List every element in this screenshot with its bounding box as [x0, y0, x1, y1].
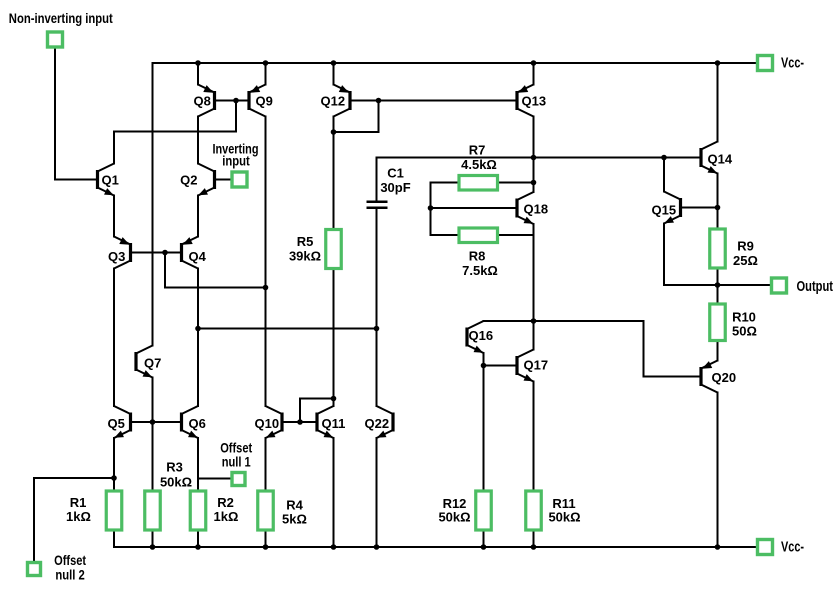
terminal inverting input — [232, 172, 247, 187]
transistor Q13 — [517, 85, 534, 117]
terminal offset null 2 — [28, 563, 41, 576]
svg-text:null 1: null 1 — [222, 455, 251, 470]
label R2 R2 — [217, 495, 234, 510]
label C1 C1 — [387, 166, 404, 181]
junction — [661, 155, 667, 161]
label value 50Ω — [732, 324, 757, 339]
label Q1 — [102, 173, 119, 188]
wire Q10 emitter to R4 — [265, 438, 267, 491]
wire Q12-Q13 base link — [350, 100, 517, 102]
transistor Q14 — [701, 142, 718, 174]
svg-text:Offset: Offset — [54, 553, 86, 568]
label R10 R10 — [732, 310, 756, 325]
svg-text:Q1: Q1 — [102, 173, 119, 188]
transistor Q10 — [266, 406, 283, 438]
resistor R1 — [106, 491, 122, 530]
label Q17 — [524, 358, 549, 373]
wire R3 to bottom rail — [152, 530, 154, 547]
junction — [263, 285, 269, 291]
junction — [531, 318, 537, 324]
label Q2 — [180, 173, 197, 188]
junction — [481, 363, 487, 369]
terminal offset null 1 — [232, 473, 245, 486]
label Q12 — [321, 94, 346, 109]
label Q16 — [469, 328, 494, 343]
wire Q1 emitter to Q3 emitter — [113, 196, 115, 237]
terminal Vcc- bottom — [758, 540, 773, 555]
svg-text:50kΩ: 50kΩ — [548, 510, 580, 525]
label R11 R11 — [552, 496, 575, 511]
label Offset null 2 line1 — [54, 553, 86, 568]
terminal Output — [772, 278, 787, 293]
label Offset null 1 line2 — [222, 455, 251, 470]
resistor R9 — [710, 229, 726, 268]
label Non-inverting input — [9, 10, 113, 26]
wire R7/R8 left link — [431, 183, 460, 236]
capacitor C1 — [367, 201, 388, 210]
label Inverting input line2 — [222, 153, 250, 169]
transistor Q5 — [114, 406, 131, 438]
junction — [263, 60, 269, 66]
wire R12 to bottom rail — [483, 530, 485, 547]
wire Q17 base — [484, 365, 518, 367]
wire Q7 emitter to Q5/Q6 base node — [152, 378, 154, 423]
transistor Q11 — [317, 406, 334, 438]
wire Q5 emitter to R1 — [113, 438, 115, 491]
wire R8 right — [498, 234, 534, 236]
wire Q13 emitter to rail — [533, 63, 535, 85]
svg-text:4.5kΩ: 4.5kΩ — [461, 157, 497, 172]
label value 50kΩ — [438, 510, 470, 525]
label Q11 — [322, 416, 346, 431]
junction — [233, 98, 239, 104]
label Q5 — [108, 416, 125, 431]
label value 1kΩ — [214, 509, 239, 524]
svg-text:1kΩ: 1kΩ — [214, 509, 239, 524]
svg-text:25Ω: 25Ω — [733, 253, 758, 268]
wire bottom rail Vcc- — [114, 546, 758, 548]
svg-text:50Ω: 50Ω — [732, 324, 757, 339]
wire R2 to bottom rail — [197, 530, 199, 547]
wire R5 bottom to Q11 collector node — [333, 269, 335, 399]
svg-text:R2: R2 — [217, 495, 234, 510]
svg-text:input: input — [222, 153, 250, 169]
svg-text:Q11: Q11 — [322, 416, 346, 431]
label value 7.5kΩ — [462, 263, 498, 278]
junction — [111, 475, 117, 481]
wire Q10/Q11 base loop — [300, 399, 334, 423]
junction — [162, 250, 168, 256]
junction — [715, 282, 721, 288]
junction — [331, 396, 337, 402]
svg-text:Q2: Q2 — [180, 173, 197, 188]
wire Q5-Q6 base link — [131, 421, 182, 423]
transistor Q18 — [517, 192, 534, 224]
wire Q15 base to Q14 emitter — [681, 207, 718, 209]
label Q18 — [524, 202, 549, 217]
wire Q20 collector to bottom rail — [717, 393, 719, 548]
label Q14 — [708, 152, 733, 167]
junction — [195, 326, 201, 332]
resistor R11 — [526, 491, 542, 530]
label R9 R9 — [737, 239, 754, 254]
transistor Q17 — [517, 350, 534, 382]
label value 50kΩ — [160, 475, 192, 490]
svg-text:50kΩ: 50kΩ — [160, 475, 192, 490]
label Vcc- bottom — [781, 540, 804, 556]
wire Q11 collector stub — [333, 399, 335, 407]
wire Q3 collector to Q5 collector — [113, 269, 115, 407]
wire R11 to bottom rail — [533, 530, 535, 547]
wire Q14 collector to rail — [717, 63, 719, 142]
wire Q4 collector to Q6 collector — [197, 269, 199, 407]
transistor Q12 — [334, 85, 351, 117]
wire C1 bottom lead to Q22 collector — [376, 209, 378, 406]
wire Q18 emitter to Q17 collector — [533, 224, 535, 350]
wire Q8-Q9 base link — [215, 100, 250, 102]
label value 39kΩ — [289, 249, 321, 264]
resistor R12 — [476, 491, 492, 530]
svg-text:Q5: Q5 — [108, 416, 125, 431]
wire rail-left drop to Q7 collector — [152, 63, 154, 346]
wire Q9 collector down to Q10 collector — [265, 117, 267, 407]
junction — [531, 180, 537, 186]
transistor Q2 — [198, 164, 215, 196]
junction — [331, 60, 337, 66]
wire Q12 collector-base loop — [334, 101, 379, 133]
wire offset null 2 branch — [34, 478, 114, 562]
wire Q18 base — [431, 207, 518, 209]
svg-text:39kΩ: 39kΩ — [289, 249, 321, 264]
junction — [195, 60, 201, 66]
svg-text:Q22: Q22 — [365, 416, 390, 431]
label value 5kΩ — [282, 512, 307, 527]
wire Q3/Q4 base to Q9 collector node — [165, 253, 266, 288]
svg-text:Q3: Q3 — [108, 249, 125, 264]
resistor R8 — [459, 228, 498, 243]
svg-text:R1: R1 — [70, 495, 87, 510]
label Offset null 2 line2 — [55, 568, 85, 583]
transistor Q16 — [467, 321, 484, 353]
label Q6 — [189, 416, 206, 431]
wire Q13 collector to Q18 collector — [533, 117, 535, 193]
wire C1 bottom node row — [198, 328, 377, 330]
wire R10 bottom to Q20 emitter — [717, 341, 719, 361]
label Q8 — [194, 94, 211, 109]
wire Q11 emitter to bottom rail — [333, 438, 335, 547]
junction — [331, 129, 337, 135]
svg-text:Q10: Q10 — [255, 416, 280, 431]
label Q13 — [522, 94, 547, 109]
transistor Q4 — [182, 237, 199, 269]
label value 1kΩ — [66, 509, 91, 524]
svg-text:30pF: 30pF — [380, 180, 410, 195]
transistor Q7 — [136, 346, 153, 378]
label Q10 — [255, 416, 280, 431]
wire Q10-Q11 base link — [282, 421, 317, 423]
junction — [715, 60, 721, 66]
junction — [715, 544, 721, 550]
svg-text:7.5kΩ: 7.5kΩ — [462, 263, 498, 278]
svg-text:R9: R9 — [737, 239, 754, 254]
wire Q14 emitter to R9 — [717, 174, 719, 230]
terminal Vcc- top — [758, 56, 773, 71]
svg-text:R10: R10 — [732, 310, 756, 325]
label Q4 — [189, 249, 207, 264]
junction — [481, 544, 487, 550]
wire C1 top lead — [376, 158, 378, 201]
wire top rail Vcc — [153, 62, 758, 64]
wire Q15 emitter to output node — [664, 224, 718, 286]
svg-text:Q13: Q13 — [522, 94, 547, 109]
junction — [428, 205, 434, 211]
svg-text:R4: R4 — [286, 498, 303, 513]
svg-text:50kΩ: 50kΩ — [438, 510, 470, 525]
wire R12 column — [483, 366, 485, 492]
wire non-inverting input to Q1 base — [55, 47, 98, 180]
junction — [150, 544, 156, 550]
wire R9 bottom to R10 top — [717, 268, 719, 304]
label R8 R8 — [469, 249, 486, 264]
svg-text:Q9: Q9 — [256, 94, 273, 109]
resistor R5 — [326, 230, 342, 269]
svg-text:Q6: Q6 — [189, 416, 206, 431]
svg-text:1kΩ: 1kΩ — [66, 509, 91, 524]
label Q9 — [256, 94, 273, 109]
svg-text:Q15: Q15 — [652, 203, 677, 218]
svg-text:Q14: Q14 — [708, 152, 733, 167]
resistor R7 — [459, 176, 498, 191]
junction — [531, 60, 537, 66]
transistor Q15 — [664, 192, 681, 224]
wire Q2 emitter to Q4 emitter — [197, 196, 199, 237]
label Vcc- top — [781, 56, 804, 72]
label Offset null 1 line1 — [220, 441, 252, 456]
junction — [531, 155, 537, 161]
wire Q3-Q4 base link — [131, 252, 182, 254]
wire R5 top — [333, 132, 335, 230]
svg-text:Q17: Q17 — [524, 358, 549, 373]
transistor Q6 — [182, 406, 199, 438]
junction — [376, 98, 382, 104]
svg-text:Q7: Q7 — [144, 356, 161, 371]
svg-text:Q4: Q4 — [189, 249, 207, 264]
junction — [297, 419, 303, 425]
svg-text:5kΩ: 5kΩ — [282, 512, 307, 527]
wire offset null 1 branch — [198, 478, 232, 480]
wire Q8 collector to Q2 collector — [197, 117, 199, 164]
junction — [374, 326, 380, 332]
svg-text:R8: R8 — [469, 249, 486, 264]
wire Q17 emitter to R11 — [533, 382, 535, 492]
resistor R4 — [258, 491, 274, 530]
svg-text:Offset: Offset — [220, 441, 252, 456]
resistor R10 — [710, 304, 726, 341]
wire Q8 emitter to rail — [197, 63, 199, 85]
svg-text:Q20: Q20 — [712, 370, 737, 385]
wire output node to terminal — [718, 284, 772, 286]
svg-text:C1: C1 — [387, 166, 404, 181]
wire Q1 collector to Q8/Q9 base node — [114, 101, 236, 164]
wire R3 column — [152, 422, 154, 491]
transistor Q1 — [98, 164, 115, 196]
label value 50kΩ — [548, 510, 580, 525]
label Output — [797, 279, 834, 295]
wire R4 to bottom rail — [265, 530, 267, 547]
svg-text:R3: R3 — [166, 460, 183, 475]
label Q3 — [108, 249, 125, 264]
wire Q16 emitter — [483, 353, 485, 366]
svg-text:Vcc-: Vcc- — [781, 56, 804, 72]
label value 4.5kΩ — [461, 157, 497, 172]
svg-text:Output: Output — [797, 279, 834, 295]
svg-text:Q12: Q12 — [321, 94, 346, 109]
svg-text:Q18: Q18 — [524, 202, 549, 217]
label R1 R1 — [70, 495, 87, 510]
label Q20 — [712, 370, 737, 385]
terminal non-inverting input — [48, 32, 63, 47]
svg-text:Q16: Q16 — [469, 328, 494, 343]
label Q15 — [652, 203, 677, 218]
wire Q6 emitter to R2 — [197, 438, 199, 491]
junction — [531, 544, 537, 550]
junction — [150, 419, 156, 425]
label Inverting input line1 — [213, 141, 259, 157]
wire Q2 base to inverting input — [215, 179, 233, 181]
svg-text:R7: R7 — [469, 143, 486, 158]
junction — [195, 544, 201, 550]
svg-text:Vcc-: Vcc- — [781, 540, 804, 556]
wire Q9 emitter to rail — [265, 63, 267, 85]
junction — [331, 544, 337, 550]
label R5 R5 — [297, 234, 314, 249]
label Q22 — [365, 416, 390, 431]
svg-text:Non-inverting input: Non-inverting input — [9, 10, 113, 26]
wire Q15 collector — [663, 158, 665, 192]
wire R7 right — [498, 182, 534, 184]
svg-text:R5: R5 — [297, 234, 314, 249]
wire Q22 emitter to bottom rail — [376, 438, 378, 547]
label value 30pF — [380, 180, 410, 195]
transistor Q3 — [114, 237, 131, 269]
wire R7 row to Q14 base — [377, 157, 702, 159]
wire Q17 collector node to Q20 base — [484, 321, 702, 377]
junction — [715, 205, 721, 211]
wire R1 to bottom rail — [113, 530, 115, 547]
label value 25Ω — [733, 253, 758, 268]
label R4 R4 — [286, 498, 303, 513]
wire Q12 emitter to rail — [333, 63, 335, 85]
svg-text:null 2: null 2 — [55, 568, 85, 583]
transistor Q22 — [377, 406, 394, 438]
junction — [263, 544, 269, 550]
junction — [374, 544, 380, 550]
resistor R3 — [145, 491, 161, 530]
transistor Q9 — [249, 85, 266, 117]
label R7 R7 — [469, 143, 486, 158]
transistor Q20 — [701, 361, 718, 393]
label R12 R12 — [443, 496, 467, 511]
label R3 R3 — [166, 460, 183, 475]
svg-text:Q8: Q8 — [194, 94, 211, 109]
resistor R2 — [190, 491, 206, 530]
label Q7 — [144, 356, 161, 371]
transistor Q8 — [198, 85, 215, 117]
